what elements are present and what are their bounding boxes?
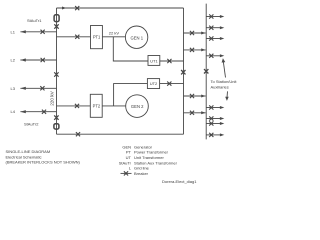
svg-text:220 kV: 220 kV — [50, 90, 55, 105]
svg-text:StAuTr: StAuTr — [119, 160, 132, 165]
svg-text:L3: L3 — [11, 86, 16, 91]
svg-text:L4: L4 — [11, 109, 16, 114]
breaker X on top tie line — [75, 6, 79, 10]
breaker X on tie 4 — [190, 111, 194, 115]
wire: grid line L2 with arrow — [20, 59, 56, 61]
wire: PT2 to GEN2 — [102, 105, 126, 107]
svg-text:Station Aux Transformer: Station Aux Transformer — [134, 160, 178, 165]
breaker X on 220kV bus above StAuTr2 — [54, 115, 58, 119]
svg-text:UT: UT — [126, 155, 132, 160]
wire: tie 2 station bus to aux bus — [184, 49, 206, 51]
wire: aux feeder 4 with arrow — [206, 55, 220, 57]
unit transformer UT1 — [148, 56, 160, 66]
breaker X after UT1 — [167, 59, 171, 63]
breaker X on tie 3 — [190, 94, 194, 98]
breaker X on PT2 tap — [75, 104, 79, 108]
svg-text:L2: L2 — [11, 58, 16, 63]
svg-text:PT1: PT1 — [93, 34, 101, 39]
wire: aux feeder 8 with arrow — [206, 134, 220, 136]
caption: title block — [6, 149, 81, 165]
svg-text:GEN: GEN — [122, 144, 131, 149]
wire: grid line L3 with arrow — [20, 87, 56, 89]
wire: UT1 drop from generator 1 bus — [113, 37, 148, 61]
breaker X on aux feeder 5 — [209, 105, 213, 109]
arrow on top tie line — [62, 7, 66, 10]
svg-text:Unit Transformer: Unit Transformer — [134, 155, 164, 160]
svg-text:To Station/Unit: To Station/Unit — [211, 79, 238, 84]
wire: grid line L1 with arrow — [20, 31, 56, 33]
breaker X on aux feeder 3 — [209, 36, 213, 40]
breaker X on aux feeder 6 — [209, 116, 213, 120]
breaker X on aux feeder 7 — [209, 121, 213, 125]
wire: bottom tie line from 220kV bus to station bus — [57, 133, 184, 135]
generator GEN 2 — [126, 95, 149, 118]
wire: aux feeder 6 with arrow — [206, 118, 220, 120]
breaker X after UT2 — [167, 82, 171, 86]
annotation: To Station/Unit Auxiliaries with pointer arrows — [211, 58, 238, 101]
wire: grid line L4 with arrow — [20, 111, 56, 113]
svg-text:UT2: UT2 — [150, 81, 158, 86]
breaker X on PT1 tap — [75, 35, 79, 39]
breaker X on L1 — [41, 30, 45, 34]
breaker X on tie 1 — [190, 31, 194, 35]
svg-text:PT2: PT2 — [93, 103, 101, 108]
svg-text:Breaker: Breaker — [134, 171, 149, 176]
wire: UT2 drop from generator 2 bus — [114, 84, 148, 106]
svg-text:Dorera-Elect_diag1: Dorera-Elect_diag1 — [162, 179, 197, 184]
transformer StAuTr1 — [54, 15, 59, 22]
wire: aux feeder 2 with arrow — [206, 27, 220, 29]
wire: aux feeder 3 with arrow — [206, 38, 220, 40]
wire: tie 1 station bus to aux bus — [184, 32, 206, 34]
breaker X on 220kV bus between L2 and L3 — [54, 72, 58, 76]
svg-text:Generator: Generator — [134, 144, 153, 149]
power transformer PT1 — [91, 26, 103, 49]
svg-text:Electrical Schematic: Electrical Schematic — [6, 154, 42, 159]
breaker X on aux feeder 2 — [209, 26, 213, 30]
wire: PT1 tap from 220kV bus — [57, 36, 91, 38]
svg-text:GEN 1: GEN 1 — [131, 35, 144, 40]
svg-text:GEN 2: GEN 2 — [131, 104, 144, 109]
wire: tie 4 station bus to aux bus — [184, 112, 206, 114]
svg-text:22 kV: 22 kV — [109, 31, 120, 36]
breaker X on aux feeder 4 — [209, 54, 213, 58]
svg-text:SINGLE-LINE DIAGRAM: SINGLE-LINE DIAGRAM — [6, 149, 51, 154]
breaker X on auxiliaries bus — [204, 69, 208, 73]
breaker X on L3 — [40, 86, 44, 90]
transformer StAuTr2 — [54, 124, 59, 129]
svg-text:StAuTr2: StAuTr2 — [24, 122, 39, 127]
svg-text:(BREAKER INTERLOCKS NOT SHOWN): (BREAKER INTERLOCKS NOT SHOWN) — [6, 160, 81, 165]
svg-text:Auxiliaries: Auxiliaries — [211, 84, 229, 89]
breaker X on tie 2 — [190, 48, 194, 52]
svg-text:L: L — [129, 166, 132, 171]
breaker X on L2 — [41, 58, 45, 62]
breaker X on L4 — [42, 110, 46, 114]
wire: station bus (vertical) — [183, 8, 185, 134]
svg-text:PT: PT — [126, 150, 132, 155]
wire: UT1 to station bus — [160, 60, 184, 62]
wire: PT1 to GEN1 — [102, 36, 125, 38]
svg-text:L1: L1 — [11, 29, 16, 34]
breaker X on bottom tie line — [76, 132, 80, 136]
breaker X on aux feeder 1 — [209, 14, 213, 18]
legend — [119, 144, 198, 184]
legend breaker symbol — [121, 171, 132, 175]
generator GEN 1 — [125, 26, 147, 48]
unit transformer UT2 — [147, 79, 159, 89]
wire: UT2 to station bus — [160, 83, 184, 85]
wire: top tie line from 220kV bus to station bus — [57, 7, 184, 9]
wire: tie 3 station bus to aux bus — [184, 95, 206, 97]
wire: left 220 kV bus (vertical) — [56, 8, 58, 134]
wire: aux feeder 5 with arrow — [206, 107, 220, 109]
wire: PT2 tap from 220kV bus — [57, 105, 91, 107]
svg-text:Power Transformer: Power Transformer — [134, 150, 169, 155]
svg-text:StAuTr1: StAuTr1 — [27, 18, 42, 23]
breaker X on aux feeder 8 — [209, 133, 213, 137]
breaker X on bus below StAuTr1 — [54, 24, 58, 28]
power transformer PT2 — [90, 94, 102, 117]
wire: aux feeder 7 with arrow — [206, 123, 220, 125]
wire: aux feeder 1 with arrow — [206, 16, 220, 18]
wire: auxiliaries bus (vertical) — [205, 4, 207, 140]
svg-text:UT1: UT1 — [150, 58, 158, 63]
svg-text:Grid line: Grid line — [134, 166, 150, 171]
breaker X on station bus — [181, 70, 185, 74]
